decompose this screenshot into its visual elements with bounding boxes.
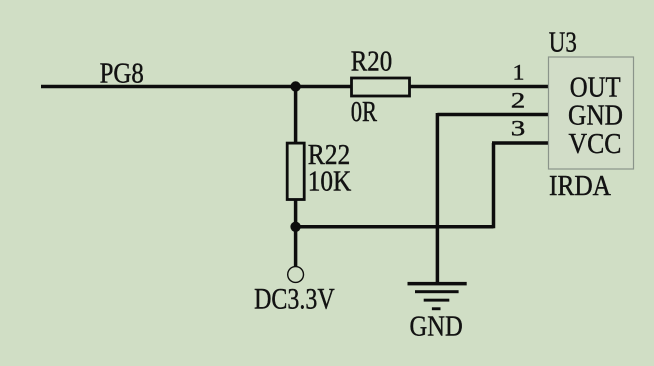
- ground bar 3: [424, 299, 450, 302]
- svg-text:3: 3: [511, 116, 526, 141]
- wire pin 2 horizontal: [437, 113, 548, 117]
- ground bar 1: [408, 282, 467, 286]
- svg-text:2: 2: [511, 88, 526, 113]
- op-amp U1: component U3 body box: [549, 57, 634, 169]
- wire R22 bottom to lower junction: [294, 199, 298, 228]
- junction at DC3.3V net: [290, 222, 300, 232]
- svg-text:PG8: PG8: [100, 58, 144, 89]
- wire GND drop from pin 2: [436, 113, 440, 284]
- svg-text:VCC: VCC: [569, 129, 622, 160]
- svg-text:OUT: OUT: [570, 73, 621, 104]
- svg-text:R20: R20: [351, 46, 393, 77]
- svg-text:10K: 10K: [308, 166, 352, 197]
- wire VCC riser up to pin 3: [492, 143, 496, 228]
- ground bar 4: [432, 307, 441, 310]
- svg-text:0R: 0R: [351, 97, 378, 128]
- wire DC3.3V stub: [294, 227, 298, 267]
- svg-text:GND: GND: [568, 101, 623, 132]
- svg-text:DC3.3V: DC3.3V: [254, 283, 335, 315]
- svg-text:U3: U3: [549, 28, 577, 59]
- resistor R20: [352, 78, 410, 96]
- svg-text:1: 1: [513, 60, 525, 85]
- svg-text:IRDA: IRDA: [549, 171, 612, 202]
- resistor R22: [287, 143, 304, 199]
- wire pin 3 horizontal: [492, 141, 549, 145]
- power port DC3.3V circle: [288, 267, 304, 283]
- ground bar 2: [415, 290, 459, 293]
- wire lower horizontal net to VCC riser: [296, 225, 494, 229]
- wire PG8 horizontal net: [41, 85, 352, 89]
- svg-text:GND: GND: [410, 311, 463, 342]
- junction at R22 top net: [290, 81, 300, 91]
- wire R20 to U3 pin 1: [409, 85, 549, 89]
- wire junction down to R22: [294, 87, 298, 145]
